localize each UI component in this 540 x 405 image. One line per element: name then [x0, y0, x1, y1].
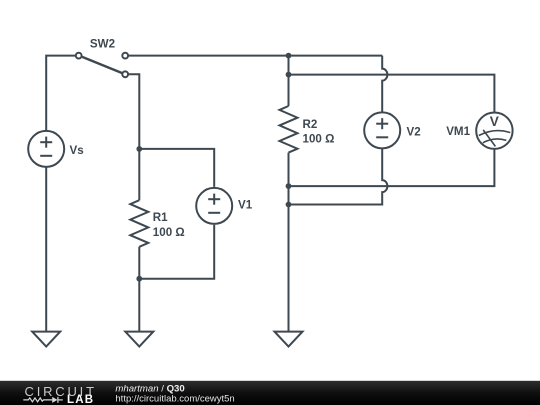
- svg-text:VM1: VM1: [446, 125, 470, 138]
- wire switch NO to top-right corner: [128, 55, 382, 57]
- wire V1 bottom to node: [139, 225, 214, 279]
- junction node A: [286, 53, 292, 59]
- wire vertical bus x=288.5 bottom: [288, 153, 290, 332]
- voltage source Vs: [28, 131, 64, 167]
- footer bar: [0, 381, 540, 405]
- svg-text:R2: R2: [303, 118, 318, 131]
- junction node C top: [286, 183, 292, 189]
- ground under Vs: [32, 332, 60, 347]
- svg-text:100 Ω: 100 Ω: [303, 132, 335, 145]
- resistor R1: [130, 200, 148, 247]
- junction node C bottom: [286, 202, 292, 208]
- resistor R2: [280, 106, 298, 153]
- logo resistor-diode glyph: [23, 397, 63, 403]
- wire R1 bottom to ground: [138, 247, 140, 332]
- svg-text:R1: R1: [153, 211, 168, 224]
- svg-text:V: V: [490, 114, 499, 129]
- svg-text:SW2: SW2: [90, 38, 115, 51]
- junction node B: [286, 72, 292, 78]
- svg-text:V2: V2: [407, 125, 421, 138]
- svg-text:100 Ω: 100 Ω: [153, 226, 185, 239]
- wire V2 bottom to node C with hop: [289, 149, 388, 205]
- voltage source V2: [364, 112, 400, 148]
- svg-text:V1: V1: [238, 198, 253, 211]
- voltage source V1: [196, 188, 232, 224]
- wire corner down to V2 top with hop: [382, 56, 387, 113]
- svg-text:LAB: LAB: [67, 394, 94, 405]
- wire Vs bottom to ground: [45, 167, 47, 332]
- ground under R1: [125, 332, 153, 347]
- svg-text:http://circuitlab.com/cewyt5n: http://circuitlab.com/cewyt5n: [115, 393, 234, 404]
- voltmeter VM1: [476, 113, 512, 149]
- switch SW2: [76, 53, 128, 78]
- wire node C to VM1 bottom: [289, 149, 495, 186]
- svg-text:Vs: Vs: [70, 144, 84, 157]
- wire Vs top to switch: [46, 56, 76, 131]
- wire switch common to R1 branch: [128, 74, 139, 200]
- wire node to V1 top: [139, 149, 214, 187]
- junction R1 bottom node: [136, 276, 142, 282]
- ground under R2: [275, 332, 303, 347]
- wire vertical bus x=288.5 top: [288, 56, 290, 106]
- junction R1 top node: [136, 146, 142, 152]
- wire node B to VM1 top: [289, 75, 495, 113]
